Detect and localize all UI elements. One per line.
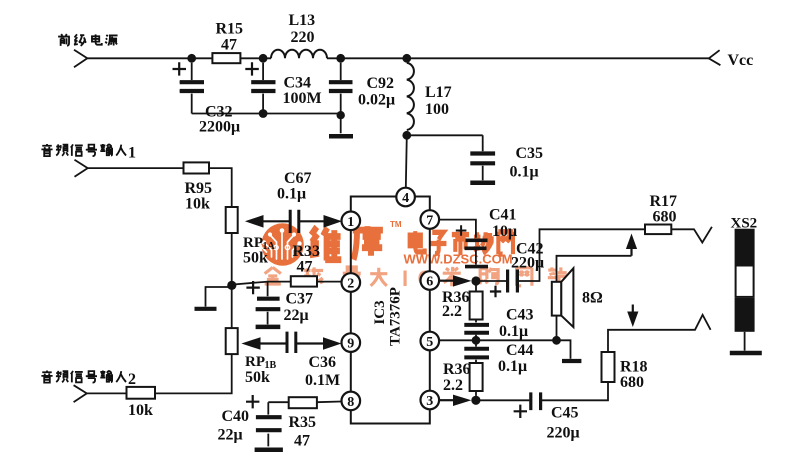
inductor L17 (407, 63, 414, 130)
resistor 10k input2 (127, 387, 156, 399)
input terminal 前级电源 arrow (74, 50, 87, 67)
svg-text:22μ: 22μ (284, 307, 309, 324)
wire C42 up to R17 (519, 229, 645, 281)
capacitor C92 (340, 63, 342, 134)
wire input2 to 10k (87, 392, 127, 394)
svg-text:RP: RP (245, 354, 265, 370)
svg-text:100: 100 (425, 101, 449, 118)
svg-text:C40: C40 (222, 408, 250, 425)
capacitor C41 (465, 240, 488, 248)
wire RP1A to node E (231, 233, 233, 285)
svg-text:5: 5 (426, 335, 433, 350)
resistor R36 upper (470, 292, 483, 320)
capacitor C34 polarity plus (245, 62, 258, 75)
capacitor C37 (267, 282, 269, 325)
wire speaker bottom (556, 316, 558, 341)
op-amp IC3 TA7376P body (351, 197, 430, 424)
svg-text:220μ: 220μ (511, 255, 544, 272)
potentiometer RP1A body (226, 207, 238, 233)
label 音频信号输入1 (41, 144, 126, 156)
svg-text:50k: 50k (245, 369, 270, 386)
svg-text:220μ: 220μ (547, 425, 580, 442)
svg-text:680: 680 (653, 209, 677, 226)
svg-text:TM: TM (390, 220, 402, 229)
svg-text:R33: R33 (293, 243, 321, 260)
resistor R17 (645, 225, 671, 235)
ground speaker (562, 359, 581, 363)
svg-text:R95: R95 (185, 180, 213, 197)
capacitor C42 polarity plus (490, 286, 501, 297)
capacitor C35 (482, 135, 484, 180)
svg-text:L13: L13 (289, 12, 316, 29)
wire pin5 line (439, 339, 556, 341)
node D junction (402, 54, 411, 63)
svg-text:2: 2 (347, 277, 354, 292)
svg-text:2.2: 2.2 (443, 377, 463, 394)
wire R17 to jack contact (671, 227, 712, 243)
svg-text:0.1μ: 0.1μ (277, 186, 306, 203)
svg-text:2: 2 (128, 371, 136, 388)
pin 8 (342, 392, 361, 411)
watermark title 电子市场网 (410, 231, 513, 256)
resistor R95 (184, 162, 210, 173)
wire R36a to C43 (475, 320, 477, 323)
junction C43 C44 pin5 (472, 336, 481, 345)
wire speaker top to jack (557, 256, 632, 282)
svg-text:10k: 10k (185, 196, 210, 213)
wire power input to R15 (87, 57, 212, 59)
svg-text:Vcc: Vcc (728, 52, 754, 69)
capacitor C36 (287, 332, 296, 353)
resistor R18 (602, 352, 615, 382)
wire R35 to pin8 (317, 401, 341, 404)
pin 2 (342, 273, 361, 292)
svg-text:22μ: 22μ (218, 427, 243, 444)
resistor R36 lower (470, 363, 483, 391)
potentiometer RP1A wiper arrow (262, 220, 289, 222)
jack plug arrow lower (632, 305, 634, 314)
input terminal 音频信号输入1 arrow (75, 160, 88, 177)
input terminal 音频信号输入2 arrow (74, 385, 87, 402)
svg-text:0.02μ: 0.02μ (358, 92, 395, 109)
svg-text:47: 47 (297, 259, 313, 276)
wire to speaker ground (557, 340, 571, 358)
ground power filter (329, 134, 353, 139)
potentiometer RP1B body (226, 328, 238, 354)
capacitor C37 polarity plus (246, 281, 259, 294)
svg-text:10k: 10k (128, 402, 153, 419)
wire node F to C42 (481, 280, 507, 282)
svg-text:47: 47 (221, 37, 237, 54)
svg-text:2200μ: 2200μ (199, 119, 240, 136)
resistor R33 (291, 276, 317, 286)
node E junction (227, 281, 236, 290)
wire L13 to Vcc (327, 57, 709, 59)
svg-text:C44: C44 (506, 342, 534, 359)
node A junction (187, 54, 196, 63)
svg-text:50k: 50k (243, 250, 268, 267)
capacitor C34 (262, 63, 264, 114)
wire pin6 arrow to node F (439, 280, 453, 282)
wire R18 to lower jack (608, 315, 711, 352)
node F junction (471, 276, 480, 285)
svg-text:10μ: 10μ (492, 223, 517, 240)
wire pin3 arrow to node G (439, 399, 453, 401)
ground C35 (470, 181, 495, 186)
label 前级电源 (58, 34, 117, 46)
ground XS2 (730, 351, 762, 356)
capacitor C45 (531, 392, 541, 410)
capacitor C67 (290, 210, 299, 233)
svg-text:2.2: 2.2 (442, 303, 462, 320)
svg-text:R35: R35 (289, 414, 317, 431)
wire R15 to L13 (240, 57, 271, 59)
junction L17 bottom (402, 131, 411, 140)
svg-text:R17: R17 (650, 193, 678, 210)
capacitor C32 (180, 63, 204, 114)
wire L17 to pin4 (406, 135, 407, 188)
ground input stage (195, 307, 217, 311)
svg-text:R36: R36 (443, 361, 471, 378)
pin 3 (421, 391, 440, 410)
svg-text:0.1μ: 0.1μ (498, 358, 527, 375)
resistor R15 (212, 53, 240, 63)
capacitor C40 (267, 402, 269, 446)
capacitor C45 polarity plus (514, 405, 527, 418)
junction speaker pin5 line (552, 336, 561, 345)
pin 4 (396, 188, 415, 207)
svg-text:47: 47 (294, 433, 310, 450)
wire pin7 to C41 (439, 220, 476, 238)
inductor L13 (271, 50, 327, 59)
node G junction (471, 396, 480, 405)
svg-text:XS2: XS2 (731, 216, 758, 232)
wire C67 to pin1 arrow (299, 220, 324, 222)
capacitor C40 polarity plus (246, 395, 259, 408)
svg-text:C37: C37 (286, 291, 314, 308)
svg-text:0.1μ: 0.1μ (499, 323, 528, 340)
svg-text:TA7376P: TA7376P (388, 287, 404, 346)
wire C40 to R35 (268, 401, 288, 403)
watermark logo circle (259, 223, 304, 265)
svg-text:4: 4 (402, 191, 409, 206)
wire R36a node F down (475, 286, 477, 292)
svg-text:C35: C35 (516, 145, 544, 162)
svg-text:R15: R15 (216, 21, 244, 38)
speaker 8ohm (552, 282, 562, 316)
ground C40 (255, 448, 283, 453)
Vcc terminal arrow (709, 50, 721, 65)
wire node E to ground (206, 287, 232, 307)
ground C37 (256, 325, 281, 330)
svg-text:9: 9 (347, 337, 354, 352)
svg-text:C45: C45 (551, 405, 579, 422)
label 音频信号输入2 (41, 371, 126, 383)
svg-text:C67: C67 (284, 170, 312, 187)
svg-text:8Ω: 8Ω (582, 290, 603, 307)
node C junction (336, 54, 345, 63)
watermark big title 维库 (310, 226, 383, 260)
wire R33 to pin2 (317, 281, 342, 283)
svg-text:0.1μ: 0.1μ (510, 164, 539, 181)
wire RP1B to input2 (155, 354, 232, 393)
wire C45 to R18 (542, 382, 608, 400)
svg-text:1: 1 (128, 145, 136, 162)
capacitor C44 (475, 340, 477, 363)
wire node E to RP1B (231, 285, 233, 328)
svg-text:3: 3 (426, 394, 433, 409)
junction C92 ground bus (337, 111, 345, 119)
pin 7 (421, 210, 440, 229)
svg-text:WWW.DZSC.COM: WWW.DZSC.COM (404, 252, 513, 267)
svg-text:680: 680 (620, 374, 644, 391)
node B junction (259, 54, 268, 63)
wire ground bus bottom (192, 113, 341, 115)
junction C34 ground bus (259, 109, 268, 118)
pin 5 (421, 332, 440, 351)
svg-text:C34: C34 (284, 75, 312, 92)
svg-text:1: 1 (347, 215, 354, 230)
connector XS2 body (735, 229, 755, 265)
op-amp IC3 body fill (351, 197, 430, 424)
watermark slogan 全球最大IC采购网站 (265, 267, 567, 286)
svg-text:R18: R18 (620, 359, 648, 376)
wire C36 to pin9 arrow (296, 342, 323, 344)
svg-text:6: 6 (426, 275, 433, 290)
resistor R35 (289, 397, 317, 408)
capacitor C32 polarity plus (173, 62, 187, 75)
svg-text:C43: C43 (506, 307, 534, 324)
svg-text:8: 8 (347, 395, 354, 410)
potentiometer RP1B wiper arrow (260, 342, 286, 344)
wire L17 to C35 (407, 134, 483, 136)
svg-text:220: 220 (291, 29, 315, 46)
pin 6 (421, 271, 440, 290)
svg-text:C92: C92 (367, 75, 395, 92)
wire node G to C45 (476, 399, 530, 401)
wire R36b to pin3 node (475, 391, 477, 396)
capacitor C43 (464, 325, 489, 333)
svg-text:IC3: IC3 (372, 300, 388, 324)
wire XS2 to ground (744, 332, 746, 351)
wire input1 to R95 (88, 167, 184, 169)
svg-text:C41: C41 (489, 207, 517, 224)
pin 9 (342, 333, 361, 352)
wire node E to R33 (232, 282, 291, 285)
pin 1 (342, 212, 361, 231)
svg-text:7: 7 (426, 214, 433, 229)
svg-text:0.1M: 0.1M (305, 372, 340, 389)
jack plug arrow upper (630, 249, 632, 256)
capacitor C41 polarity plus (456, 225, 467, 236)
capacitor C42 (508, 270, 518, 293)
svg-text:L17: L17 (425, 84, 452, 101)
svg-text:100M: 100M (283, 90, 322, 107)
wire R95 to RP1A (209, 168, 232, 207)
svg-text:C36: C36 (309, 354, 337, 371)
